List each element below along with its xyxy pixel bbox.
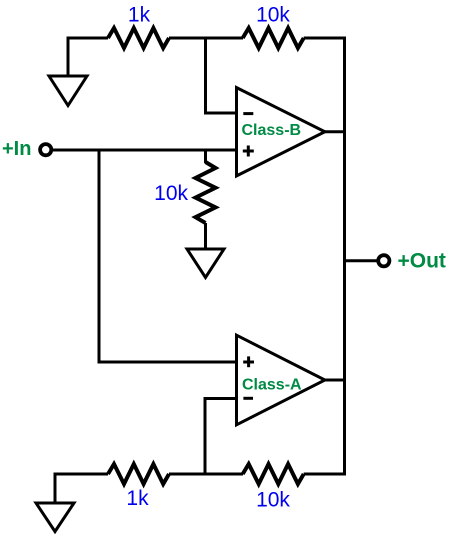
svg-text:Class-B: Class-B (242, 122, 302, 139)
svg-text:10k: 10k (256, 489, 290, 512)
svg-text:10k: 10k (154, 182, 188, 205)
svg-text:1k: 1k (128, 4, 151, 27)
svg-text:+Out: +Out (398, 250, 446, 273)
svg-text:Class-A: Class-A (242, 377, 302, 394)
svg-text:1k: 1k (126, 487, 149, 510)
svg-text:+In: +In (2, 138, 31, 160)
svg-text:10k: 10k (256, 4, 290, 27)
